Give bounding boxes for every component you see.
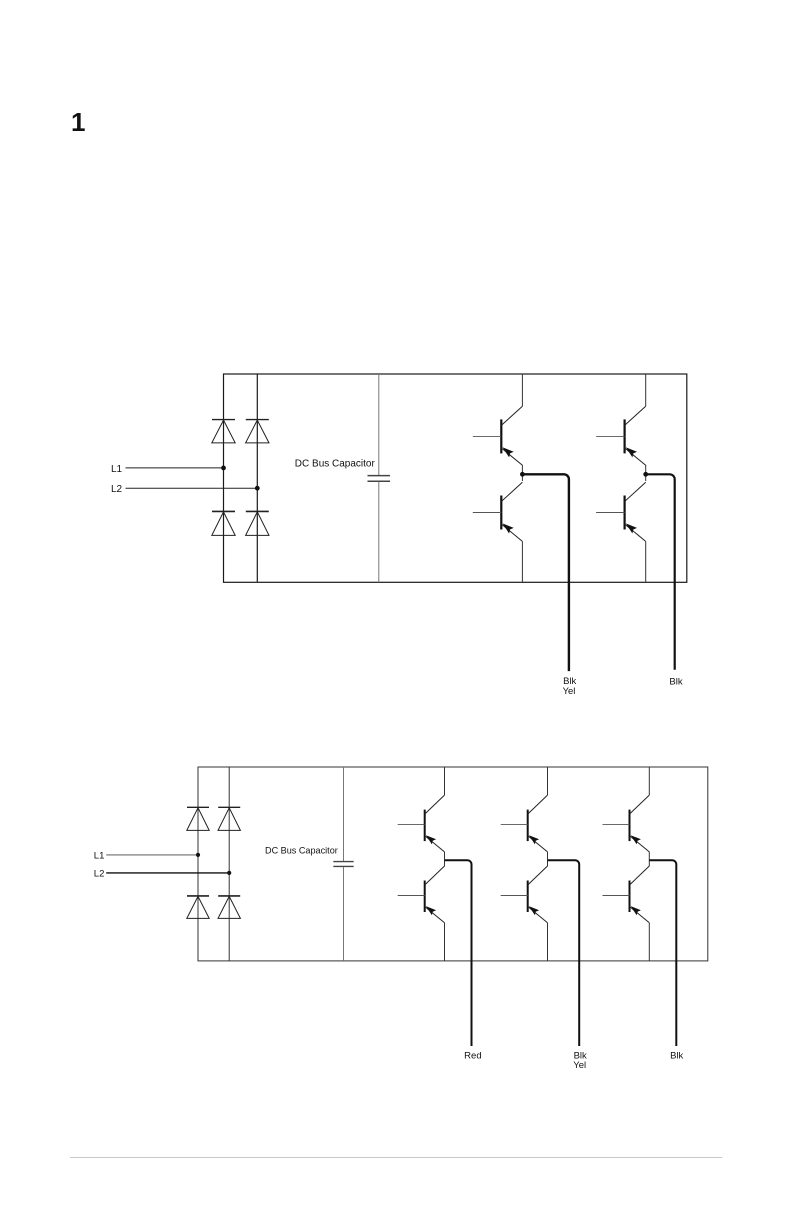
wire: leg 1 midpoint vertical (top ckt) [521,465,523,481]
svg-text:L2: L2 [111,484,123,495]
svg-text:1: 1 [71,107,85,137]
transistor Q8 (bottom ckt leg 2 lower) [501,866,548,923]
wire: leg 1 collector feed from top rail (bottom ckt) [444,767,446,795]
footer rule [70,1157,722,1159]
capacitor C1 plates (top ckt) [368,476,391,482]
wire: leg 3 midpoint vertical (bottom ckt) [648,852,650,867]
svg-text:Red: Red [464,1050,481,1061]
node L1 junction dot (top ckt) [221,466,226,471]
diode D8 (bottom ckt col2 bottom) [218,896,240,919]
capacitor C1 branch wire upper (top ckt) [378,374,380,475]
wire: leg 3 collector feed from top rail (bottom ckt) [648,767,650,795]
transistor Q7 (bottom ckt leg 2 upper) [501,795,548,852]
wire: leg 2 emitter to bottom rail (top ckt) [645,541,647,582]
node L1 input wire (bottom ckt) [106,854,198,856]
transistor Q2 (top ckt leg 1 lower) [473,482,523,541]
wire: leg 1 collector feed from top rail (top ckt) [521,374,523,406]
node L1 input wire (top ckt) [126,467,224,469]
wire: thick output lead Blk (top ckt) [646,474,675,670]
diode D3 (top ckt col1 bottom) [212,511,235,535]
capacitor C2 branch wire lower (bottom ckt) [343,867,345,961]
wire: leg 2 midpoint vertical (top ckt) [645,465,647,481]
wire: leg 3 emitter to bottom rail (bottom ckt) [648,923,650,961]
node L1 junction dot (bottom ckt) [196,853,200,857]
circuit 2: DC bus frame rectangle [198,767,708,961]
wire: thick output lead 2 (bottom ckt) [548,860,580,1046]
diode D1 (top ckt col1 top) [212,420,235,443]
svg-text:Yel: Yel [573,1060,586,1071]
node: leg 2 output junction dot (top ckt) [643,472,648,477]
transistor Q5 (bottom ckt leg 1 upper) [398,795,445,852]
wire: leg 2 collector feed from top rail (bottom ckt) [547,767,549,795]
svg-text:Blk: Blk [669,677,682,688]
svg-text:L1: L1 [111,464,123,475]
wire: leg 2 emitter to bottom rail (bottom ckt) [547,923,549,961]
wire: leg 1 midpoint vertical (bottom ckt) [444,852,446,867]
node L2 input wire (bottom ckt) [106,872,229,874]
node L2 junction dot (bottom ckt) [227,871,231,875]
wire: leg 2 collector feed from top rail (top ckt) [645,374,647,406]
svg-text:DC Bus Capacitor: DC Bus Capacitor [265,845,338,855]
transistor Q3 (top ckt leg 2 upper) [596,406,646,465]
node L2 input wire (top ckt) [126,487,258,489]
svg-text:DC Bus Capacitor: DC Bus Capacitor [295,458,376,469]
transistor Q1 (top ckt leg 1 upper) [473,406,523,465]
wire: leg 1 emitter to bottom rail (top ckt) [521,541,523,582]
wire: thick output lead 1 (bottom ckt) [445,860,472,1046]
wire: thick output lead Blk/Yel (top ckt) [522,474,569,671]
wire: leg 1 emitter to bottom rail (bottom ckt) [444,923,446,961]
svg-text:Blk: Blk [670,1050,683,1061]
diode D4 (top ckt col2 bottom) [246,511,269,535]
diode D5 (bottom ckt col1 top) [187,807,209,830]
transistor Q6 (bottom ckt leg 1 lower) [398,866,445,923]
node L2 junction dot (top ckt) [255,486,260,491]
wire: rectifier column 2 vertical (bottom ckt) [228,767,230,961]
capacitor C2 branch wire upper (bottom ckt) [343,767,345,861]
wire: leg 2 midpoint vertical (bottom ckt) [547,852,549,867]
transistor Q9 (bottom ckt leg 3 upper) [603,795,650,852]
diode D7 (bottom ckt col1 bottom) [187,896,209,919]
circuit 1: DC bus frame rectangle [224,374,687,582]
transistor Q4 (top ckt leg 2 lower) [596,482,646,541]
capacitor C2 plates (bottom ckt) [333,862,353,867]
diode D2 (top ckt col2 top) [246,420,269,443]
capacitor C1 branch wire lower (top ckt) [378,482,380,582]
wire: thick output lead 3 (bottom ckt) [649,860,676,1046]
diode D6 (bottom ckt col2 top) [218,807,240,830]
svg-text:L2: L2 [94,868,105,879]
svg-text:L1: L1 [94,850,105,861]
node: leg 1 output junction dot (top ckt) [520,472,525,477]
svg-text:Yel: Yel [563,686,576,697]
wire: rectifier column 2 vertical [256,374,258,582]
transistor Q10 (bottom ckt leg 3 lower) [603,866,650,923]
